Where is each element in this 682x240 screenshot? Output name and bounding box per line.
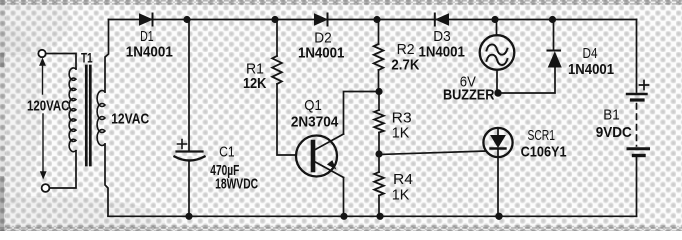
wire node to D4 anode: [498, 68, 555, 93]
svg-text:2.7K: 2.7K: [391, 57, 419, 74]
terminal top-left: [38, 50, 45, 57]
diode D1: [140, 14, 153, 26]
node junction C1/bottom rail: [185, 213, 192, 220]
svg-text:D1: D1: [140, 28, 154, 45]
diode D3: [435, 14, 449, 26]
node junction R4/bottom rail: [376, 213, 383, 220]
wire R4 bottom: [378, 196, 380, 217]
buzzer 6V: [480, 35, 515, 70]
left edge scan marks: [0, 0, 6, 231]
wire C1 top: [188, 20, 190, 152]
svg-text:C106Y1: C106Y1: [521, 144, 567, 161]
svg-text:SCR1: SCR1: [527, 127, 555, 144]
svg-text:1N4001: 1N4001: [298, 45, 345, 62]
svg-text:120VAC: 120VAC: [27, 98, 70, 115]
wire gate to SCR1: [379, 151, 486, 155]
svg-text:C1: C1: [219, 144, 235, 161]
svg-text:Q1: Q1: [304, 97, 322, 114]
svg-text:18WVDC: 18WVDC: [215, 176, 258, 193]
wire R3 top: [378, 92, 380, 111]
wire Q1 collector: [344, 92, 380, 135]
battery B1: [627, 81, 649, 156]
wire secondary top: [105, 20, 109, 93]
node junction buzzer/top rail: [491, 16, 498, 23]
top scan band: [0, 0, 682, 5]
node junction R2/R3/collector: [375, 88, 382, 95]
scan tone unevenness: [0, 196, 165, 240]
transistor Q1: [296, 134, 344, 178]
svg-text:1K: 1K: [392, 125, 410, 142]
node junction D4/top rail: [549, 16, 556, 23]
wire R1 top: [276, 20, 278, 57]
wire SCR cathode: [497, 149, 499, 217]
node 120VAC arrow: [39, 58, 47, 180]
svg-text:12K: 12K: [243, 75, 267, 92]
wire primary top: [46, 54, 76, 70]
wire Q1 emitter: [343, 178, 345, 217]
node junction R1/top rail: [271, 16, 278, 23]
wire R1 bottom to Q1 base: [277, 84, 296, 155]
terminal bottom-left: [42, 184, 50, 192]
node junction C1/top rail: [183, 16, 190, 23]
node junction emitter/bottom rail: [340, 213, 347, 220]
svg-text:1K: 1K: [392, 187, 410, 204]
svg-text:2N3704: 2N3704: [291, 114, 339, 131]
svg-text:B1: B1: [603, 107, 620, 124]
svg-text:BUZZER: BUZZER: [443, 87, 495, 104]
node junction SCR/bottom rail: [495, 213, 502, 220]
node junction buzzer/D4/SCR: [494, 89, 501, 96]
diode D4: [548, 51, 562, 68]
node junction R3/R4/gate: [375, 150, 382, 157]
transformer T1 primary winding: [69, 68, 76, 152]
diode D2: [315, 14, 328, 26]
wire battery - to bottom rail: [636, 157, 638, 216]
resistor R1: [272, 56, 282, 84]
SCR1: [483, 128, 512, 157]
svg-text:R2: R2: [397, 41, 415, 58]
wire secondary bottom: [105, 144, 108, 216]
wire top rail: [109, 19, 637, 21]
svg-text:R4: R4: [393, 171, 413, 188]
capacitor C1: [175, 140, 205, 161]
svg-text:1N4001: 1N4001: [126, 44, 173, 61]
svg-text:12VAC: 12VAC: [111, 111, 149, 128]
resistor R2: [374, 44, 384, 70]
bottom scan band: [0, 225, 682, 231]
wire primary bottom: [49, 151, 76, 188]
transformer T1 secondary winding: [97, 91, 105, 146]
wire buzzer top: [496, 20, 498, 36]
svg-text:T1: T1: [81, 51, 93, 66]
svg-text:D4: D4: [583, 45, 598, 62]
wire R2 top: [378, 20, 380, 45]
svg-text:9VDC: 9VDC: [596, 124, 632, 141]
wire right rail to battery +: [636, 20, 638, 93]
wire R4 top: [378, 154, 380, 172]
wire C1 bottom: [188, 162, 190, 217]
svg-text:1N4001: 1N4001: [568, 61, 614, 78]
wire R2 bottom: [378, 70, 380, 92]
svg-text:1N4001: 1N4001: [418, 44, 465, 61]
node junction R2/top rail: [373, 16, 380, 23]
resistor R3: [374, 110, 384, 133]
svg-text:D3: D3: [433, 28, 451, 45]
wire buzzer bottom: [496, 70, 498, 93]
wire R3 bottom: [378, 133, 380, 155]
wire D4 cathode: [553, 20, 555, 50]
transformer T1 core: [86, 66, 90, 165]
resistor R4: [374, 172, 384, 195]
wire bottom rail: [108, 215, 637, 217]
